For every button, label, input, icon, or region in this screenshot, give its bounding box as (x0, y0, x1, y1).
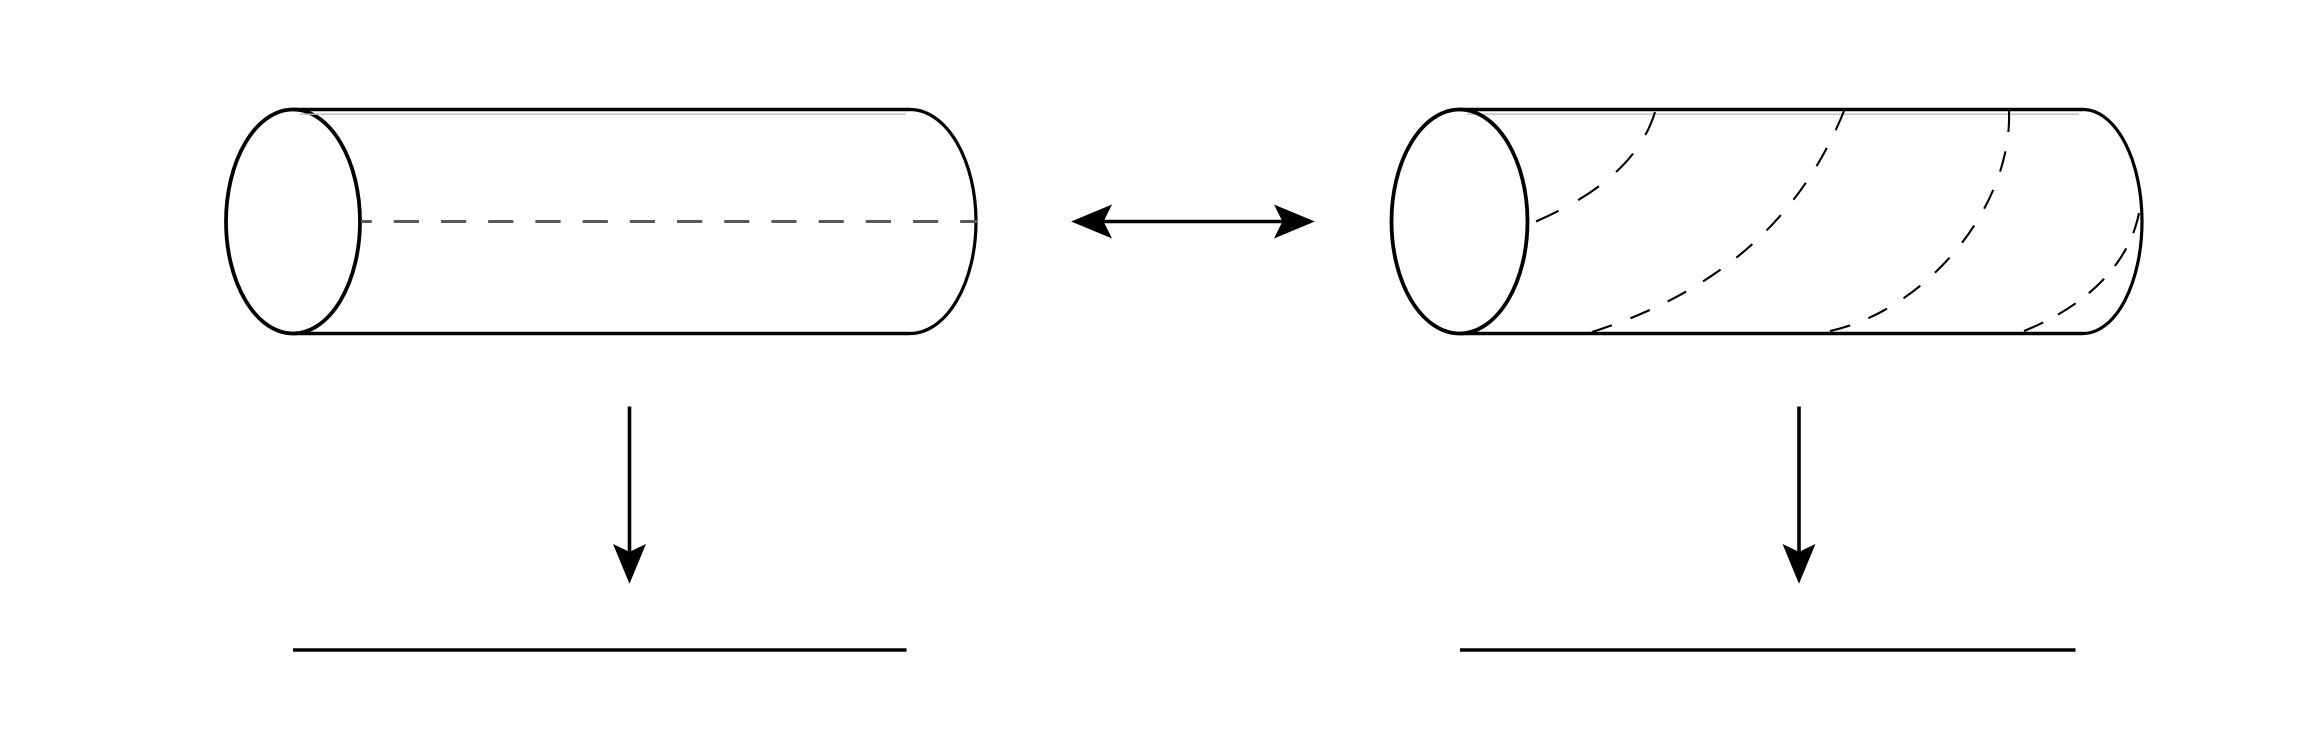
helix curve 1 (1536, 112, 1655, 222)
left cylinder body outline (226, 110, 976, 334)
right base line (1460, 648, 2076, 651)
dashed helix curves on right cylinder (1536, 111, 2139, 332)
wire top line of left cylinder (293, 108, 910, 111)
grey echo under left cylinder top line (300, 113, 906, 115)
wire top line of right cylinder (1460, 108, 2084, 111)
wire bottom line of right cylinder (1460, 332, 2084, 335)
right projection arrow (down) (1784, 407, 1815, 583)
helix curve 4 (2024, 213, 2139, 331)
left base line (293, 648, 907, 651)
right cylinder body outline (1392, 110, 2143, 334)
helix curve 2 (1592, 111, 1844, 332)
grey echo under right cylinder top line (1467, 113, 2079, 115)
right cap arc of right cylinder (2083, 110, 2142, 334)
helix curve 3 (1830, 111, 2009, 331)
wire bottom line of left cylinder (293, 332, 910, 335)
left end ellipse of right cylinder (1392, 110, 1528, 334)
left end ellipse of left cylinder (226, 110, 360, 334)
double-headed arrow between cylinders (1073, 206, 1314, 238)
dashed axis of left cylinder (361, 220, 977, 223)
right cap arc of left cylinder (910, 110, 976, 334)
left projection arrow (down) (614, 407, 645, 583)
